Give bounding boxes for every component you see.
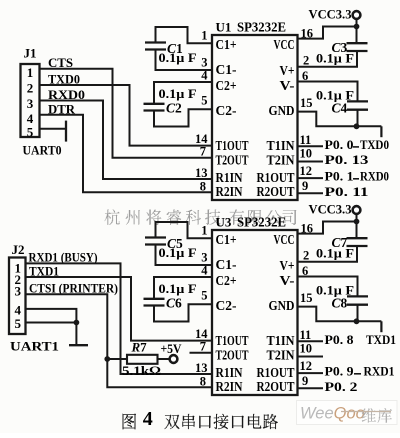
- ref label C8: [332, 296, 348, 311]
- pin label R1IN (U1): [216, 171, 243, 186]
- pin number 4 (U1 left): [201, 68, 208, 82]
- svg-text:1: 1: [27, 65, 34, 80]
- wire J2.4 down: [26, 309, 77, 323]
- wire U3 pin15 GND to rail: [298, 307, 382, 322]
- pin number 1 (J1): [27, 65, 34, 80]
- pin number 5 (J1): [27, 124, 34, 139]
- pin number 12 (U1 right): [300, 164, 313, 178]
- svg-text:R1IN: R1IN: [216, 171, 243, 186]
- svg-text:T1OUT: T1OUT: [216, 139, 249, 154]
- svg-text:VCC: VCC: [274, 233, 295, 248]
- IC U3 SP3232E: [212, 230, 298, 395]
- value label 0.1uF (C5): [159, 246, 197, 260]
- pin number 3 (J2): [15, 284, 22, 299]
- svg-text:12: 12: [300, 359, 313, 373]
- svg-text:V-: V-: [280, 274, 295, 289]
- pin label T2IN (U1): [267, 154, 295, 169]
- junction dot VCC (bottom): [354, 219, 360, 225]
- svg-text:UART1: UART1: [10, 339, 59, 354]
- label J2: [12, 243, 25, 257]
- wire U1 pin11 T1IN stub: [298, 145, 324, 147]
- net label TXD0: [48, 72, 80, 87]
- svg-text:5: 5: [201, 289, 207, 303]
- svg-text:P0. 11: P0. 11: [325, 184, 369, 199]
- capacitor C3: [347, 43, 368, 51]
- svg-text:R1OUT: R1OUT: [257, 366, 296, 381]
- pin label C1+ (U3): [216, 233, 237, 248]
- pin label R2IN (U1): [216, 185, 243, 200]
- pin number 1 (J2): [15, 261, 22, 276]
- svg-text:3: 3: [15, 284, 22, 299]
- svg-text:C2-: C2-: [216, 104, 237, 119]
- svg-text:VCC3.3: VCC3.3: [309, 8, 352, 22]
- svg-text:U1: U1: [216, 20, 232, 35]
- svg-text:9: 9: [302, 374, 308, 388]
- wire U3 pin12 R1OUT stub: [298, 372, 324, 374]
- pin number 7 (U3 left): [200, 340, 206, 354]
- wire TXD0: J1.2 to U1 T1OUT: [40, 85, 213, 146]
- svg-text:2: 2: [303, 249, 309, 263]
- pin number 4 (J1): [27, 111, 34, 126]
- svg-text:T2OUT: T2OUT: [216, 154, 249, 169]
- svg-text:10: 10: [300, 147, 313, 161]
- pin number 2 (J1): [27, 81, 34, 96]
- wire R7 left: [107, 358, 127, 360]
- svg-text:C2+: C2+: [216, 274, 237, 289]
- svg-text:T2IN: T2IN: [267, 154, 295, 169]
- svg-text:P0. 13: P0. 13: [325, 152, 370, 167]
- svg-text:0.1μ F: 0.1μ F: [316, 52, 354, 66]
- ref label R7: [131, 340, 148, 355]
- pin label V+ (U1): [280, 64, 295, 79]
- pin number 7 (U1 left): [200, 145, 206, 159]
- wire U1 pin9 R2OUT stub: [298, 192, 324, 194]
- value label 0.1uF (C3): [316, 52, 354, 66]
- svg-text:T2IN: T2IN: [267, 349, 295, 364]
- wire J1.5 stub: [40, 128, 67, 130]
- svg-text:T1IN: T1IN: [267, 139, 295, 154]
- svg-text:GND: GND: [269, 299, 295, 314]
- power label VCC3.3 (top): [309, 8, 352, 22]
- svg-text:TXD1: TXD1: [366, 332, 396, 347]
- net label P0.1 RXD0: [325, 169, 390, 184]
- pin label R1IN (U3): [216, 366, 243, 381]
- svg-text:SP3232E: SP3232E: [237, 215, 286, 230]
- svg-text:5: 5: [27, 124, 34, 139]
- value label 0.1uF (C1): [159, 51, 197, 65]
- pin label C1- (U3): [216, 258, 237, 273]
- pin number 1 (U1 left): [201, 29, 207, 43]
- wire RXD1: J2.1 to U3 R1IN: [26, 263, 213, 374]
- svg-text:12: 12: [300, 164, 313, 178]
- pin number 16 (U3 right): [301, 221, 314, 235]
- svg-text:0.1μ F: 0.1μ F: [159, 282, 197, 296]
- junction dot CTSI/R7: [104, 356, 110, 362]
- svg-text:8: 8: [200, 374, 206, 388]
- pin label R1OUT (U1): [257, 171, 296, 186]
- pin number 1 (U3 left): [201, 224, 207, 238]
- ref label C4: [332, 101, 348, 116]
- svg-text:C1+: C1+: [216, 233, 237, 248]
- pin number 6 (U1 right): [302, 69, 308, 83]
- net label P0.0 TXD0: [325, 137, 390, 152]
- net label P0.9 RXD1: [325, 364, 395, 379]
- svg-text:J1: J1: [24, 47, 37, 61]
- wire C1 top to U1 pin1 C1+: [156, 27, 213, 43]
- pin number 11 (U1 right): [300, 133, 312, 147]
- pin number 8 (U1 left): [200, 179, 206, 193]
- svg-text:5: 5: [15, 316, 22, 331]
- wire U1 pin12 R1OUT stub: [298, 177, 324, 179]
- connector J1: [21, 64, 40, 137]
- svg-text:C1+: C1+: [216, 38, 237, 53]
- wire U3 pin6 V- to C8: [298, 277, 358, 297]
- ground tick (bottom rail): [380, 321, 382, 332]
- pin number 2 (J2): [15, 272, 22, 287]
- pin number 3 (U1 left): [201, 55, 207, 69]
- junction dot VCC (top): [354, 24, 360, 30]
- svg-text:R1IN: R1IN: [216, 366, 243, 381]
- watermark weeqoo text: [300, 405, 392, 423]
- pin label GND (U1): [269, 104, 295, 119]
- pin label T1IN (U1): [267, 139, 295, 154]
- pin label R2OUT (U1): [257, 185, 296, 200]
- svg-text:0.1μ F: 0.1μ F: [159, 51, 197, 65]
- pin number 3 (J1): [27, 96, 34, 111]
- label J1: [24, 47, 37, 61]
- pin label R2OUT (U3): [257, 380, 296, 395]
- junction dot GND rail (top): [354, 123, 360, 129]
- pin label C2+ (U1): [216, 79, 237, 94]
- wire C2 bottom to U1 pin5 C2-: [154, 109, 212, 126]
- pin label R1OUT (U3): [257, 366, 296, 381]
- svg-text:9: 9: [302, 179, 308, 193]
- net label P0.8 TXD1: [325, 332, 397, 347]
- svg-text:8: 8: [200, 179, 206, 193]
- pin number 3 (U3 left): [201, 250, 207, 264]
- pin label V- (U3): [280, 274, 295, 289]
- ref label C2: [166, 101, 182, 116]
- wire C5 top to U3 pin1 C1+: [156, 222, 213, 238]
- pin label V- (U1): [280, 79, 295, 94]
- pin number 6 (U3 right): [302, 264, 308, 278]
- svg-text:5.1kΩ: 5.1kΩ: [122, 363, 161, 378]
- wire U1 pin16 VCC to rail: [298, 27, 357, 39]
- capacitor C8: [347, 296, 368, 304]
- svg-text:11: 11: [300, 328, 312, 342]
- wire U3 pin10 T2IN stub: [298, 356, 324, 358]
- pin label C1+ (U1): [216, 38, 237, 53]
- svg-text:3: 3: [201, 55, 207, 69]
- pin label T1OUT (U3): [216, 334, 249, 349]
- wire U1 pin6 V- to C4: [298, 82, 358, 102]
- svg-text:10: 10: [300, 342, 313, 356]
- svg-text:13: 13: [195, 166, 208, 180]
- pin label T1OUT (U1): [216, 139, 249, 154]
- svg-text:C1-: C1-: [216, 258, 237, 273]
- IC label U1: [216, 20, 287, 35]
- net label CTS: [48, 55, 73, 70]
- svg-text:V-: V-: [280, 79, 295, 94]
- svg-text:T2OUT: T2OUT: [216, 349, 249, 364]
- power label +5V: [161, 342, 182, 356]
- wire C6 bottom to U3 pin5 C2-: [154, 304, 212, 321]
- ground (J2): [69, 323, 88, 346]
- value label 0.1uF (C4): [316, 89, 354, 103]
- value label 0.1uF (C7): [316, 247, 354, 261]
- pin label T1IN (U3): [267, 334, 295, 349]
- pin number 16 (U1 right): [301, 26, 314, 40]
- wire U3 pin16 VCC to rail: [298, 222, 357, 234]
- svg-text:VCC3.3: VCC3.3: [309, 203, 352, 217]
- pin number 8 (U3 left): [200, 374, 206, 388]
- net label P0.11: [325, 184, 369, 199]
- svg-text:15: 15: [300, 291, 313, 305]
- svg-text:P0. 8: P0. 8: [325, 332, 355, 347]
- svg-text:C2: C2: [166, 101, 182, 116]
- svg-text:P0. 1: P0. 1: [325, 169, 354, 184]
- power label VCC3.3 (bottom): [309, 203, 352, 217]
- junction dot J2.4/J2.5: [74, 320, 80, 326]
- IC U1 SP3232E: [212, 35, 298, 200]
- svg-text:C6: C6: [166, 296, 182, 311]
- connector J2: [9, 258, 26, 335]
- pin number 5 (U1 left): [201, 94, 207, 108]
- svg-text:2: 2: [303, 54, 309, 68]
- wire U3 pin11 T1IN stub: [298, 340, 324, 342]
- svg-text:11: 11: [300, 133, 312, 147]
- svg-text:T1OUT: T1OUT: [216, 334, 249, 349]
- svg-text:P0. 0: P0. 0: [325, 137, 354, 152]
- power terminal VCC3.3 (top): [353, 11, 361, 19]
- svg-text:TXD0: TXD0: [360, 137, 389, 152]
- pin number 9 (U1 right): [302, 179, 308, 193]
- watermark weeqoo box: [297, 401, 398, 425]
- net label DTR: [48, 101, 76, 116]
- ground tick (top rail): [380, 126, 382, 137]
- wire U3 pin9 R2OUT stub: [298, 387, 324, 389]
- pin label T2IN (U3): [267, 349, 295, 364]
- ref label C5: [167, 236, 183, 251]
- pin label C2- (U3): [216, 299, 237, 314]
- pin label GND (U3): [269, 299, 295, 314]
- wire RXD0: J1.3 to U1 R1IN: [40, 101, 213, 180]
- power terminal VCC3.3 (bottom): [353, 206, 361, 214]
- svg-text:0.1μ F: 0.1μ F: [159, 246, 197, 260]
- pin number 13 (U1 left): [195, 166, 208, 180]
- pin number 15 (U3 right): [300, 291, 313, 305]
- pin number 2 (U3 right): [303, 249, 309, 263]
- pin label C2+ (U3): [216, 274, 237, 289]
- wire C4 bottom to GND rail: [357, 110, 359, 127]
- svg-text:1: 1: [201, 29, 207, 43]
- wire U1 pin15 GND to rail: [298, 112, 382, 127]
- pin number 10 (U1 right): [300, 147, 313, 161]
- svg-text:UART0: UART0: [23, 143, 62, 158]
- wire C7 bottom to U3 pin2 V+: [298, 246, 358, 262]
- svg-text:0.1μ F: 0.1μ F: [159, 87, 197, 101]
- capacitor C2: [144, 104, 165, 111]
- resistor R7: [127, 355, 158, 364]
- pin number 15 (U1 right): [300, 96, 313, 110]
- capacitor C6: [144, 299, 165, 306]
- capacitor C4: [347, 101, 368, 109]
- pin label R2IN (U3): [216, 380, 243, 395]
- svg-text:C2-: C2-: [216, 299, 237, 314]
- svg-text:RXD0: RXD0: [360, 169, 389, 184]
- wire CTS: J1.1 to U1 T2OUT: [40, 69, 213, 158]
- value label 0.1uF (C2): [159, 87, 197, 101]
- value label 0.1uF (C6): [159, 282, 197, 296]
- svg-text:RXD1: RXD1: [364, 364, 395, 379]
- svg-text:1: 1: [201, 224, 207, 238]
- pin number 5 (J2): [15, 316, 22, 331]
- svg-text:5: 5: [201, 94, 207, 108]
- pin number 5 (U3 left): [201, 289, 207, 303]
- svg-text:C8: C8: [332, 296, 348, 311]
- wire DTR: J1.4 to U1 R2IN: [40, 115, 213, 193]
- caption figure 4: [123, 408, 278, 430]
- pin number 14 (U1 left): [195, 132, 208, 146]
- svg-text:R2OUT: R2OUT: [257, 185, 296, 200]
- svg-text:R2OUT: R2OUT: [257, 380, 296, 395]
- pin label C2- (U1): [216, 104, 237, 119]
- pin label T2OUT (U1): [216, 154, 249, 169]
- pin number 10 (U3 right): [300, 342, 313, 356]
- pin label VCC (U3): [274, 233, 295, 248]
- net label P0.2: [325, 379, 358, 394]
- power terminal +5V: [170, 355, 178, 363]
- pin label V+ (U3): [280, 259, 295, 274]
- net label TXD1: [29, 264, 59, 278]
- pin number 12 (U3 right): [300, 359, 313, 373]
- capacitor C5: [145, 238, 166, 245]
- wire R7 right to +5V: [158, 358, 170, 360]
- wire C6 top to U3 pin4 C2+: [154, 277, 212, 299]
- svg-text:V+: V+: [280, 259, 295, 274]
- svg-text:0.1μ F: 0.1μ F: [316, 247, 354, 261]
- capacitor C7: [347, 238, 368, 246]
- pin number 9 (U3 right): [302, 374, 308, 388]
- ref label C1: [167, 41, 183, 56]
- svg-text:J2: J2: [12, 243, 25, 257]
- svg-text:GND: GND: [269, 104, 295, 119]
- pin label C1- (U1): [216, 63, 237, 78]
- ref label C7: [332, 235, 348, 250]
- wire U1 pin10 T2IN stub: [298, 161, 324, 163]
- wire C1 bottom to U1 pin3 C1-: [156, 50, 213, 71]
- svg-text:R7: R7: [131, 340, 148, 355]
- pin number 14 (U3 left): [195, 327, 208, 341]
- terminator bar J1.5: [65, 121, 67, 142]
- svg-text:2: 2: [27, 81, 34, 96]
- value label 5.1kΩ: [122, 363, 161, 378]
- svg-text:U3: U3: [216, 215, 232, 230]
- svg-text:15: 15: [300, 96, 313, 110]
- svg-text:13: 13: [195, 361, 208, 375]
- pin number 4 (J2): [15, 303, 22, 318]
- junction dot GND rail (bottom): [354, 318, 360, 324]
- svg-text:7: 7: [200, 340, 206, 354]
- svg-text:P0. 9: P0. 9: [325, 364, 355, 379]
- pin number 4 (U3 left): [201, 263, 208, 277]
- wire C3 bottom to U1 pin2 V+: [298, 51, 358, 67]
- svg-text:CTSI (PRINTER): CTSI (PRINTER): [29, 281, 118, 295]
- watermark hangzhou jiangrui: [104, 210, 296, 225]
- svg-text:T1IN: T1IN: [267, 334, 295, 349]
- svg-text:CTS: CTS: [48, 55, 73, 70]
- wire C5 bottom to U3 pin3 C1-: [156, 245, 213, 266]
- value label 0.1uF (C8): [316, 284, 354, 298]
- wire C8 bottom to GND rail: [357, 305, 359, 322]
- ref label C6: [166, 296, 182, 311]
- label UART1: [10, 339, 59, 354]
- svg-text:SP3232E: SP3232E: [237, 20, 286, 35]
- capacitor C1: [145, 43, 166, 50]
- ref label C3: [332, 40, 348, 55]
- net label P0.13: [325, 152, 370, 167]
- pin label VCC (U1): [274, 38, 295, 53]
- svg-text:V+: V+: [280, 64, 295, 79]
- net label CTSI (PRINTER): [29, 281, 118, 295]
- wire U3 pin7 T2OUT stub: [190, 352, 213, 354]
- wire VCC rail down to C3: [356, 19, 358, 43]
- svg-text:+5V: +5V: [161, 342, 182, 356]
- svg-text:P0. 2: P0. 2: [325, 379, 358, 394]
- label UART0: [23, 143, 62, 158]
- svg-text:VCC: VCC: [274, 38, 295, 53]
- net label RXD1 (BUSY): [29, 251, 98, 265]
- svg-text:R2IN: R2IN: [216, 380, 243, 395]
- wire TXD1: J2.2 to U3 T1OUT: [26, 277, 213, 341]
- wire J2.5: [26, 322, 77, 324]
- net label RXD0: [48, 87, 85, 102]
- svg-text:R1OUT: R1OUT: [257, 171, 296, 186]
- svg-text:C2+: C2+: [216, 79, 237, 94]
- pin label T2OUT (U3): [216, 349, 249, 364]
- svg-text:4: 4: [143, 408, 153, 430]
- wire VCC rail down to C7: [356, 214, 358, 238]
- pin number 11 (U3 right): [300, 328, 312, 342]
- wire CTSI: J2.3 to U3 R2IN: [26, 294, 213, 387]
- pin number 13 (U3 left): [195, 361, 208, 375]
- svg-text:C1-: C1-: [216, 63, 237, 78]
- svg-text:3: 3: [27, 96, 34, 111]
- IC label U3: [216, 215, 287, 230]
- svg-text:WeeQoo: WeeQoo: [300, 405, 365, 423]
- svg-text:R2IN: R2IN: [216, 185, 243, 200]
- svg-text:3: 3: [201, 250, 207, 264]
- wire C2 top to U1 pin4 C2+: [154, 82, 212, 104]
- svg-text:C4: C4: [332, 101, 348, 116]
- pin number 2 (U1 right): [303, 54, 309, 68]
- svg-text:7: 7: [200, 145, 206, 159]
